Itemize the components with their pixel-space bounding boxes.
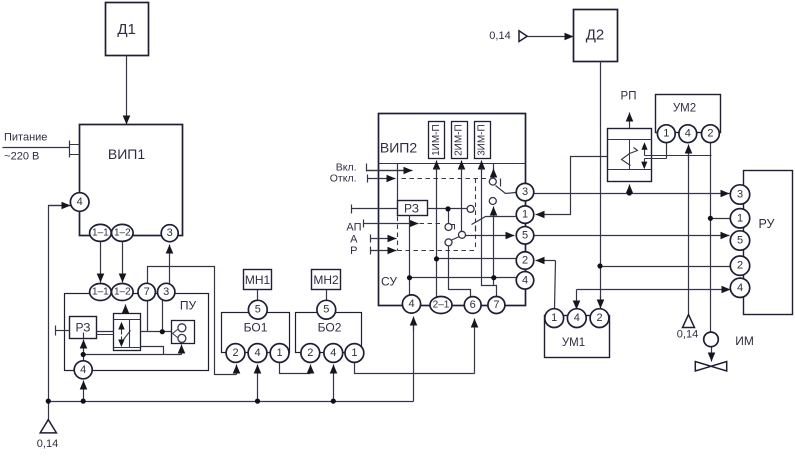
- svg-text:СУ: СУ: [381, 275, 397, 289]
- svg-text:7: 7: [144, 286, 150, 298]
- svg-text:1: 1: [277, 347, 283, 359]
- svg-text:2: 2: [707, 128, 713, 140]
- svg-text:УМ1: УМ1: [562, 337, 585, 349]
- svg-text:3: 3: [163, 286, 169, 298]
- svg-text:3: 3: [522, 186, 528, 198]
- svg-text:2ИМ-П: 2ИМ-П: [454, 124, 465, 156]
- svg-text:МН2: МН2: [313, 273, 339, 287]
- svg-text:4: 4: [330, 347, 336, 359]
- svg-text:РЗ: РЗ: [76, 321, 91, 335]
- svg-text:Д1: Д1: [117, 21, 136, 38]
- svg-text:1–1: 1–1: [92, 227, 109, 238]
- svg-text:~220 В: ~220 В: [4, 151, 39, 163]
- svg-text:ВИП2: ВИП2: [380, 140, 417, 156]
- svg-text:1ИМ-П: 1ИМ-П: [431, 124, 442, 156]
- svg-text:2: 2: [232, 347, 238, 359]
- svg-text:5: 5: [255, 304, 261, 316]
- svg-text:0,14: 0,14: [677, 329, 698, 341]
- svg-text:3ИМ-П: 3ИМ-П: [477, 124, 488, 156]
- svg-text:4: 4: [408, 298, 414, 310]
- svg-text:4: 4: [737, 282, 743, 294]
- svg-text:7: 7: [493, 299, 499, 311]
- svg-text:5: 5: [737, 235, 743, 247]
- svg-text:Р: Р: [350, 245, 357, 257]
- svg-text:5: 5: [522, 229, 528, 241]
- svg-text:1–1: 1–1: [92, 287, 109, 298]
- svg-text:АП: АП: [346, 221, 361, 233]
- svg-text:4: 4: [80, 364, 86, 376]
- svg-text:1: 1: [663, 128, 669, 140]
- svg-text:0,14: 0,14: [37, 438, 58, 450]
- svg-text:ВИП1: ВИП1: [108, 146, 145, 162]
- svg-text:1–2: 1–2: [114, 227, 131, 238]
- svg-text:1: 1: [551, 312, 557, 324]
- svg-text:4: 4: [254, 347, 260, 359]
- svg-text:3: 3: [167, 227, 173, 239]
- svg-text:2: 2: [307, 347, 313, 359]
- svg-text:А: А: [350, 234, 358, 246]
- svg-text:Откл.: Откл.: [330, 173, 357, 185]
- svg-text:РЗ: РЗ: [404, 202, 419, 216]
- svg-text:0,14: 0,14: [489, 30, 510, 42]
- svg-text:2–1: 2–1: [433, 300, 450, 311]
- svg-text:1–2: 1–2: [114, 287, 131, 298]
- svg-text:2: 2: [522, 255, 528, 267]
- svg-text:2: 2: [596, 312, 602, 324]
- svg-text:РП: РП: [621, 91, 637, 103]
- svg-text:1: 1: [351, 347, 357, 359]
- svg-text:1: 1: [522, 209, 528, 221]
- svg-text:Д2: Д2: [586, 27, 605, 44]
- svg-text:3: 3: [737, 189, 743, 201]
- svg-text:МН1: МН1: [245, 273, 271, 287]
- svg-text:БО2: БО2: [318, 321, 342, 335]
- svg-text:2: 2: [737, 260, 743, 272]
- svg-text:РУ: РУ: [758, 217, 774, 231]
- svg-text:БО1: БО1: [244, 321, 268, 335]
- svg-text:4: 4: [77, 196, 83, 208]
- svg-text:4: 4: [574, 312, 580, 324]
- svg-text:1: 1: [737, 212, 743, 224]
- svg-text:4: 4: [522, 274, 528, 286]
- svg-text:УМ2: УМ2: [673, 103, 696, 115]
- svg-text:6: 6: [470, 299, 476, 311]
- svg-text:ПУ: ПУ: [180, 299, 197, 313]
- svg-text:5: 5: [323, 304, 329, 316]
- svg-text:ИМ: ИМ: [735, 334, 754, 348]
- svg-text:4: 4: [685, 128, 691, 140]
- svg-text:Питание: Питание: [4, 132, 47, 144]
